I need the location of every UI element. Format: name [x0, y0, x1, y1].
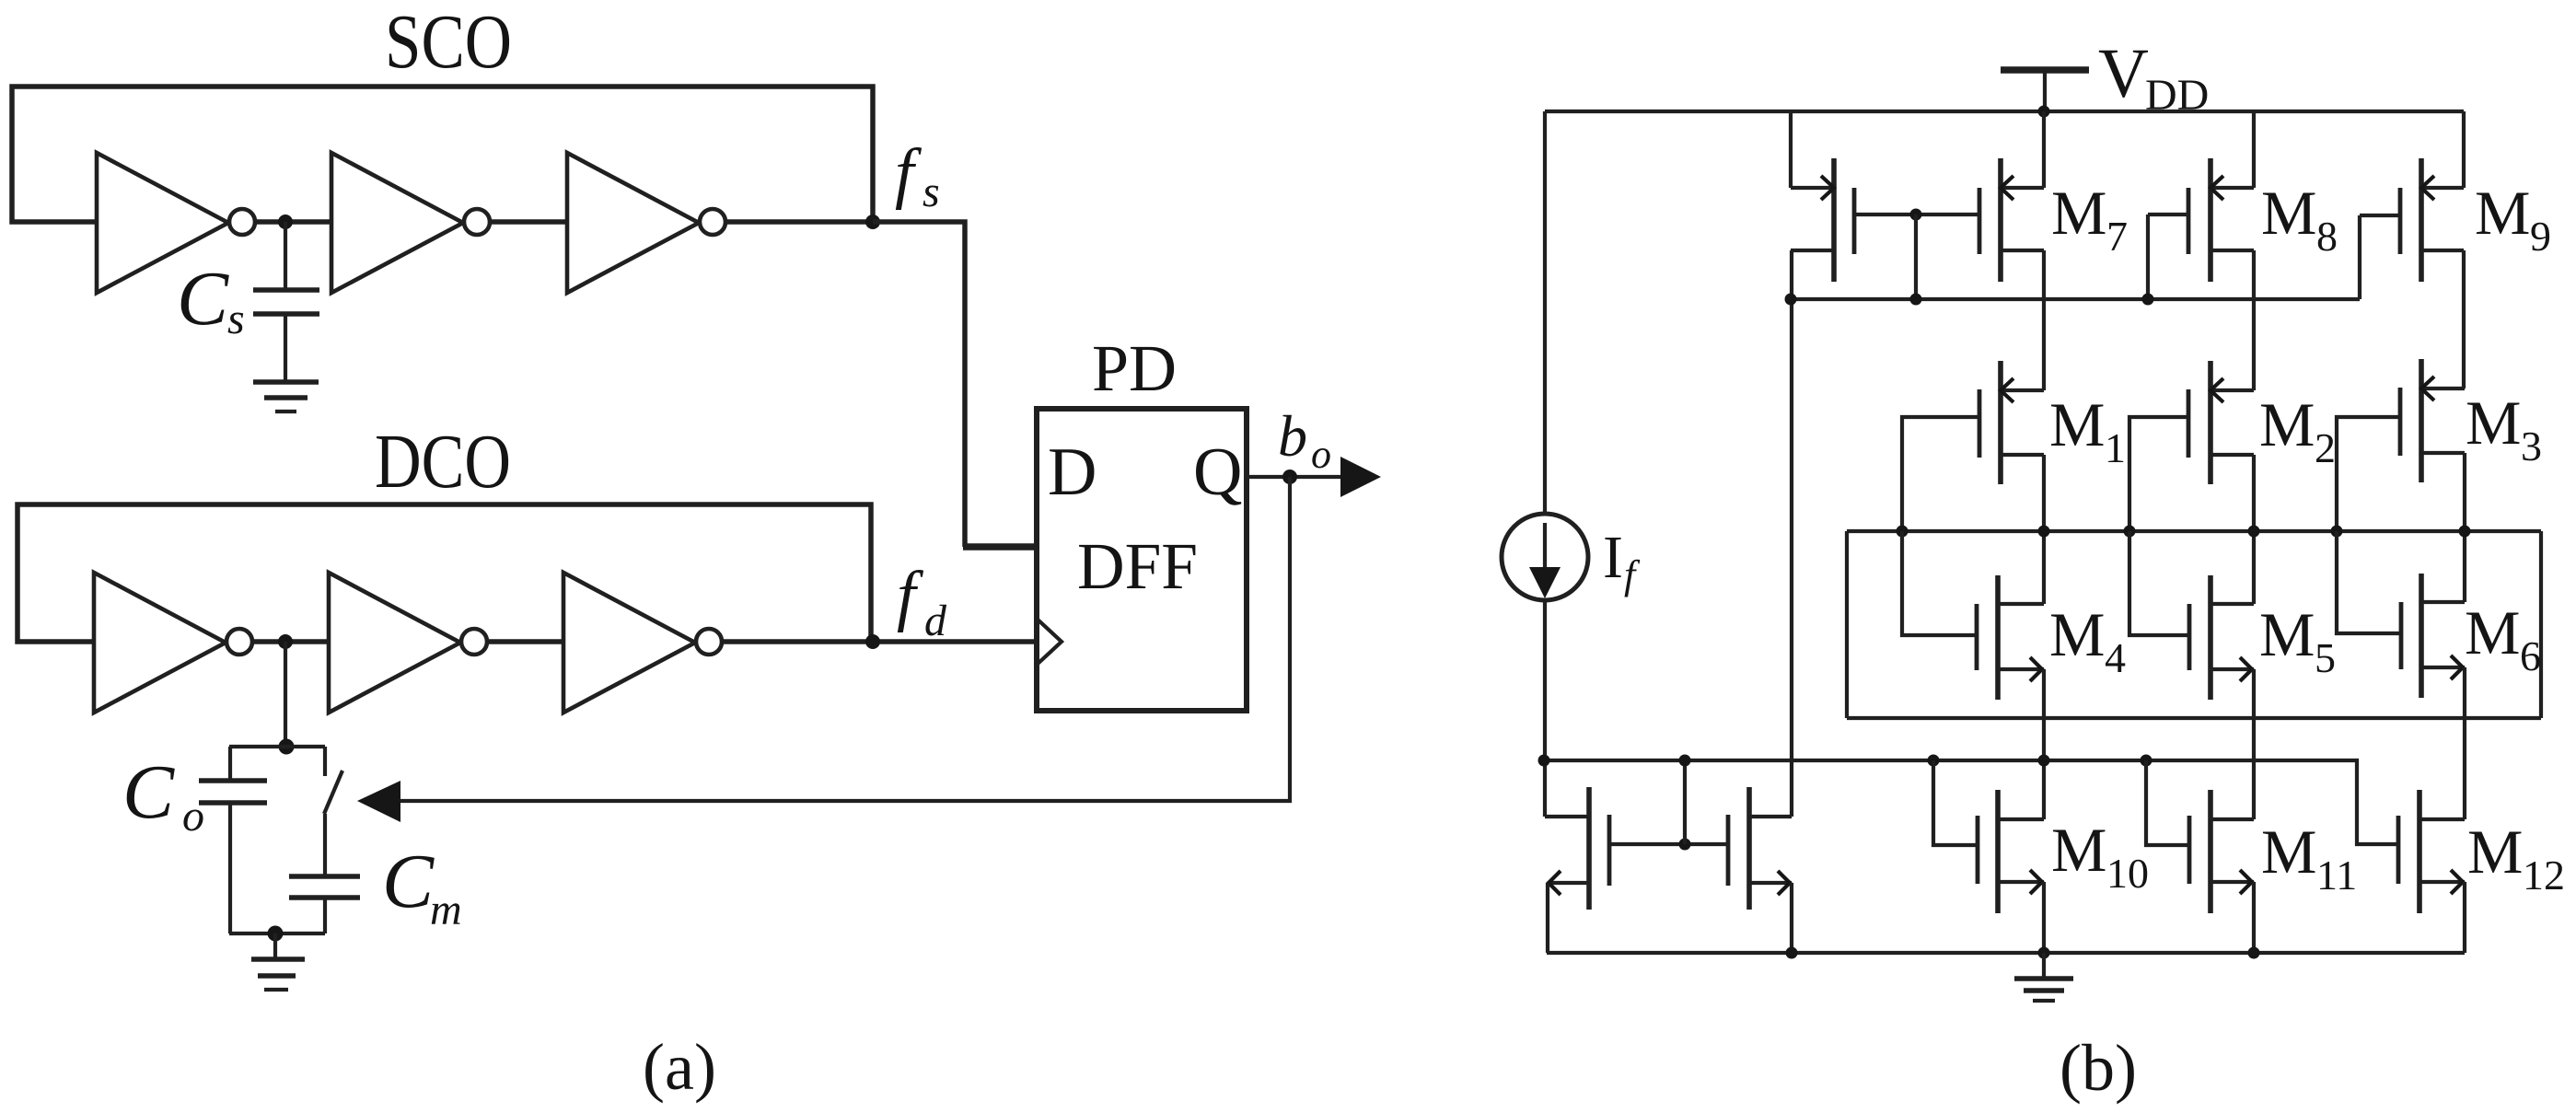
svg-text:Q: Q	[1193, 435, 1242, 510]
wire DCO feedback loop	[17, 504, 871, 642]
arrow bo output	[1340, 457, 1381, 497]
transistor M1	[1978, 389, 1982, 458]
wire M5 source down to M11	[2252, 669, 2256, 819]
arrow feedback into switch	[357, 781, 400, 822]
wire Q output	[1247, 475, 1346, 479]
switch S1	[323, 747, 327, 776]
transistor M2	[2187, 389, 2191, 458]
capacitor Cm	[323, 814, 327, 876]
svg-text:d: d	[924, 597, 947, 645]
svg-text:9: 9	[2530, 213, 2551, 260]
wire U1 out to U2	[255, 219, 331, 225]
wire mirror left source to ground rail	[1546, 883, 1549, 953]
node fs	[865, 214, 880, 229]
wire SCO feedback loop	[12, 87, 873, 222]
wire U6 out to clock input	[722, 639, 1037, 644]
node fd	[865, 634, 880, 649]
svg-text:M: M	[2261, 817, 2316, 887]
transistor M7	[1978, 188, 1982, 254]
svg-text:o: o	[182, 792, 204, 841]
wire U5 out	[487, 639, 563, 644]
wire M10 source to ground rail	[2042, 882, 2046, 953]
wire fs to D input	[873, 222, 965, 547]
svg-text:1: 1	[2105, 424, 2126, 471]
svg-text:V: V	[2098, 35, 2149, 112]
wire mid bus bottom rail	[1847, 716, 2541, 720]
node VDD-M7	[2038, 106, 2050, 118]
svg-text:s: s	[922, 168, 940, 216]
wire M2 gate lead	[2129, 417, 2188, 531]
node gate bus MP0	[1785, 294, 1797, 306]
svg-text:M: M	[2049, 389, 2105, 459]
wire cap bank top bar	[229, 745, 325, 748]
svg-text:M: M	[2475, 178, 2530, 248]
wire gate lead MP0-M7	[1854, 213, 1979, 216]
wire gate tap down to PMOS gate bus	[1914, 214, 1918, 299]
wire M3 drain to mid bus and M6	[2463, 453, 2466, 602]
wire M8 gate tap	[2146, 214, 2150, 299]
svg-text:M: M	[2051, 178, 2106, 248]
node n3	[279, 739, 295, 755]
transistor MN0R (mirror right NMOS)	[1726, 815, 1731, 886]
wire M1 drain to mid bus and M4	[2042, 455, 2046, 604]
svg-text:(a): (a)	[643, 1030, 716, 1104]
svg-text:11: 11	[2316, 852, 2357, 899]
svg-text:5: 5	[2315, 634, 2336, 681]
transistor M11	[2187, 816, 2192, 884]
wire current source to mirror drain	[1543, 600, 1547, 817]
wire M2 drain to mid bus and M5	[2252, 455, 2256, 604]
wire M9 gate lead	[2360, 214, 2400, 217]
wire mirror gate tap up to NMOS bus	[1683, 760, 1687, 844]
svg-text:M: M	[2049, 599, 2105, 669]
node mid bus M1 gate	[1897, 526, 1909, 538]
wire ground rail	[1547, 951, 2465, 955]
wire U3 out to node fs	[725, 219, 873, 225]
svg-text:DCO: DCO	[375, 419, 511, 504]
svg-text:M: M	[2465, 597, 2520, 667]
wire M4 gate lead	[1902, 531, 1977, 635]
svg-text:M: M	[2467, 817, 2523, 887]
node NMOS bus M10 drain	[2038, 755, 2050, 767]
wire M3 gate lead	[2337, 417, 2400, 531]
inverter U1	[97, 153, 228, 293]
wire feedback from bo to switch	[400, 477, 1290, 801]
wire mid gate bus	[1847, 529, 2541, 533]
svg-text:8: 8	[2316, 213, 2338, 260]
node mid bus M2 drain	[2248, 526, 2260, 538]
svg-text:12: 12	[2523, 852, 2565, 899]
capacitor Cs	[284, 222, 287, 290]
svg-text:PD: PD	[1092, 331, 1177, 405]
ground below Cs	[253, 379, 319, 385]
wire U4 out to U5	[252, 639, 329, 644]
svg-text:SCO: SCO	[385, 0, 512, 85]
wire NMOS gate bus	[1544, 760, 2398, 844]
transistor M12	[2396, 816, 2401, 884]
wire M8 source to rail	[2252, 111, 2256, 188]
svg-text:6: 6	[2520, 632, 2541, 679]
svg-text:2: 2	[2315, 424, 2336, 471]
svg-text:C: C	[122, 749, 175, 835]
wire M7 drain down to M1	[2042, 250, 2046, 390]
wire VDD top rail	[1545, 110, 2464, 113]
svg-text:M: M	[2051, 815, 2106, 885]
wire MP0 source to rail	[1789, 111, 1793, 188]
node mid bus M3 gate	[2331, 526, 2343, 538]
svg-text:7: 7	[2106, 213, 2128, 260]
svg-text:DFF: DFF	[1077, 529, 1198, 603]
inverter U6	[563, 573, 695, 713]
svg-text:C: C	[382, 839, 435, 924]
inverter U5	[329, 573, 460, 713]
wire M11 source to ground rail	[2252, 882, 2256, 953]
node n4	[268, 926, 284, 942]
node mirror gate	[1679, 839, 1691, 851]
svg-text:(b): (b)	[2060, 1031, 2137, 1105]
wire M11 gate lead	[2146, 760, 2189, 845]
svg-text:M: M	[2259, 389, 2315, 459]
transistor M10	[1976, 816, 1980, 884]
inverter U2	[331, 153, 463, 293]
node mid bus M3 drain	[2459, 526, 2471, 538]
clock wedge	[1037, 619, 1062, 665]
node ground rail mirror	[1786, 947, 1798, 959]
wire mirror gate lead	[1609, 842, 1728, 846]
svg-text:I: I	[1603, 524, 1623, 591]
wire M9 drain down to M3	[2462, 250, 2466, 388]
svg-text:M: M	[2259, 599, 2315, 669]
svg-text:M: M	[2261, 178, 2316, 248]
svg-text:10: 10	[2106, 850, 2149, 897]
node bo	[1282, 470, 1297, 484]
wire M7 source to rail	[2042, 111, 2046, 188]
svg-text:s: s	[227, 295, 245, 343]
transistor MP0 (diode PMOS)	[1831, 158, 1837, 282]
node NMOS bus left	[1538, 755, 1550, 767]
wire PMOS gate bus	[1791, 297, 2360, 301]
wire M1 gate lead	[1902, 417, 1979, 531]
node ground rail M10	[2038, 947, 2050, 959]
svg-text:4: 4	[2105, 634, 2126, 681]
wire M4 source down to M10	[2042, 669, 2046, 819]
current source If	[1502, 514, 1588, 600]
wire M12 source to ground rail	[2463, 882, 2466, 953]
inverter U3	[567, 153, 699, 293]
svg-text:C: C	[177, 256, 229, 342]
transistor M9	[2398, 188, 2403, 254]
wire mid bus right drop	[2539, 531, 2543, 718]
svg-text:D: D	[1048, 435, 1097, 510]
transistor MN0L (mirror left NMOS)	[1586, 787, 1592, 910]
node NMOS bus M10 tap	[1928, 755, 1940, 767]
wire M5 gate lead	[2129, 531, 2189, 635]
power VDD symbol	[2001, 66, 2089, 74]
node ground rail M11	[2248, 947, 2260, 959]
inverter U4	[94, 573, 226, 713]
wire M10 gate lead	[1933, 760, 1978, 845]
wire M9 gate tap	[2358, 215, 2361, 299]
svg-text:o: o	[1311, 432, 1331, 477]
ground symbol	[2042, 953, 2046, 979]
wire M6 gate lead	[2337, 531, 2401, 633]
svg-text:b: b	[1278, 403, 1307, 469]
node gate bus M7 tap	[1910, 294, 1922, 306]
wire U2 out	[490, 219, 567, 225]
wire M8 drain down to M2	[2252, 250, 2256, 390]
transistor M4	[1975, 604, 1979, 670]
wire left rail down to current source	[1543, 111, 1547, 514]
ground below cap bank	[273, 933, 277, 959]
wire MP0 drain down to NMOS mirror	[1790, 250, 1793, 817]
wire M9 source to rail	[2462, 111, 2466, 188]
svg-text:M: M	[2466, 388, 2521, 458]
wire M8 gate lead	[2148, 213, 2188, 216]
svg-text:3: 3	[2521, 423, 2542, 470]
DFF box U7	[1037, 409, 1247, 711]
node n2	[278, 634, 293, 649]
node gate lead	[1910, 209, 1922, 221]
wire node n2 down to cap bank	[284, 642, 287, 747]
wire cap bank bottom bar	[229, 932, 325, 935]
transistor M5	[2187, 604, 2192, 670]
node NMOS bus mirror tap	[1679, 755, 1691, 767]
wire mid bus left drop	[1845, 531, 1849, 718]
capacitor Co	[228, 747, 232, 781]
node n1	[278, 214, 293, 229]
node mid bus M2 gate	[2124, 526, 2136, 538]
transistor M3	[2398, 388, 2403, 456]
node mid bus M1 drain	[2038, 526, 2050, 538]
node gate bus M8 tap	[2142, 294, 2154, 306]
transistor M8	[2187, 188, 2191, 254]
wire M6 source down to M12	[2463, 667, 2466, 819]
svg-text:m: m	[430, 886, 462, 934]
node NMOS bus M11 tap	[2141, 755, 2152, 767]
transistor M6	[2399, 602, 2404, 669]
wire mirror right source to ground rail	[1790, 883, 1793, 953]
